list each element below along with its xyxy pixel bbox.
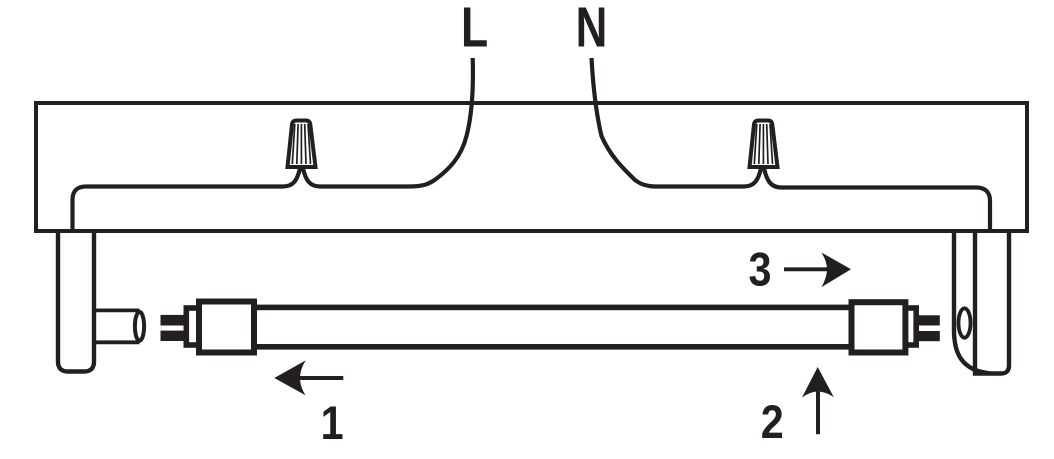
tube left pin 2 bbox=[161, 331, 187, 341]
arrow 1 (left) bbox=[274, 360, 343, 395]
arrow 3 (right) bbox=[784, 253, 851, 288]
wire L (live) down to left wire nut bbox=[303, 58, 473, 187]
wire N (neutral) down to right wire nut bbox=[592, 58, 762, 187]
lamp holder right (tombstone, angled view) bbox=[954, 231, 1009, 374]
tube right neck bbox=[893, 308, 917, 345]
svg-text:3: 3 bbox=[748, 244, 771, 296]
socket hole bbox=[959, 308, 971, 337]
svg-text:L: L bbox=[461, 0, 488, 59]
tube left end cap bbox=[199, 302, 254, 353]
tube body bbox=[254, 307, 852, 346]
tube right pin 1 bbox=[913, 315, 940, 325]
fixture body bbox=[36, 103, 1027, 231]
tube left neck bbox=[186, 308, 210, 345]
tube right end cap bbox=[852, 302, 906, 352]
svg-text:1: 1 bbox=[321, 397, 344, 449]
arrow 2 (up) bbox=[802, 367, 834, 434]
tube right pin 2 bbox=[913, 331, 940, 341]
wire from right wire nut to right lamp holder bbox=[764, 169, 990, 232]
svg-text:N: N bbox=[576, 0, 608, 59]
wire nut right bbox=[750, 121, 778, 168]
svg-text:2: 2 bbox=[761, 396, 784, 448]
wire from left wire nut to left lamp holder bbox=[73, 169, 301, 232]
wire nut left bbox=[288, 121, 316, 168]
peg on left lamp holder bbox=[96, 310, 144, 342]
tube left pin 1 bbox=[161, 315, 187, 326]
lamp holder left (tombstone) bbox=[58, 231, 94, 372]
